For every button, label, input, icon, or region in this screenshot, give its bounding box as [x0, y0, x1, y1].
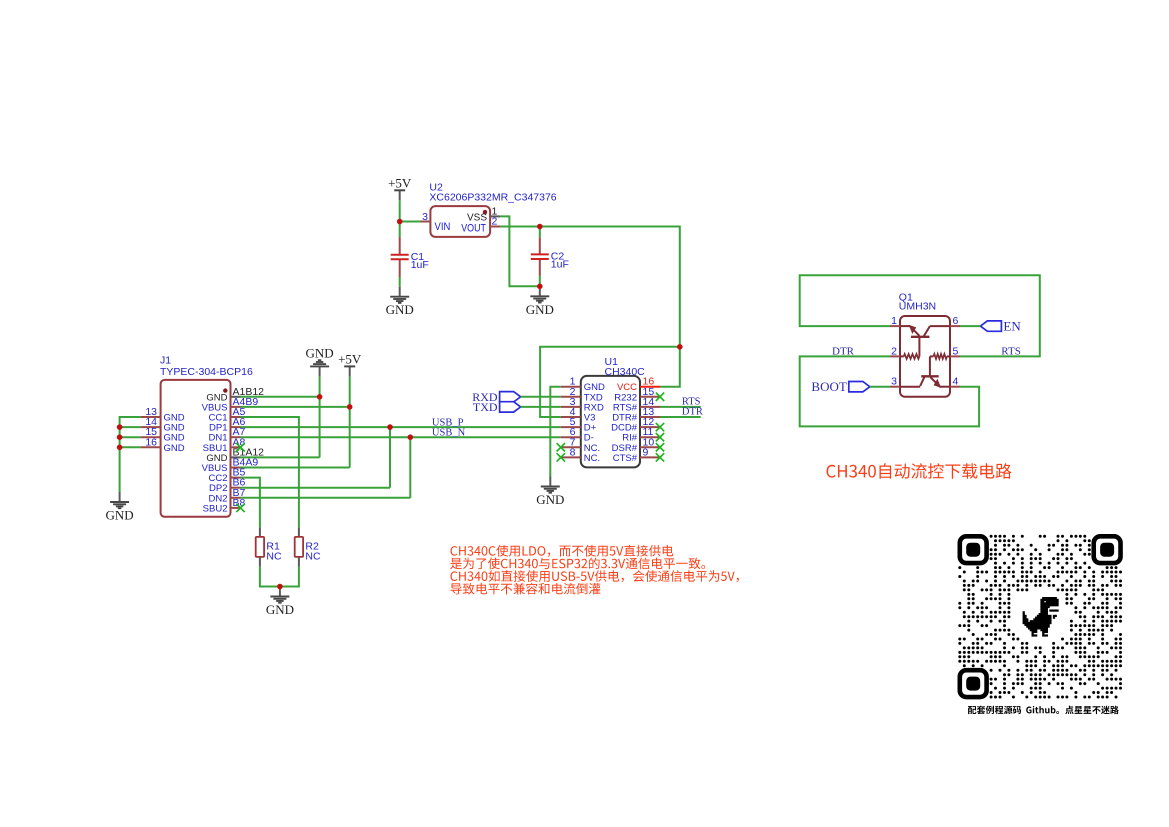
no-connect X U1 pin 15 — [656, 393, 664, 401]
svg-text:9: 9 — [643, 446, 649, 458]
U1 pin 2 TXD — [561, 396, 581, 398]
U1 pin 7 NC. — [561, 446, 581, 448]
J1 pin A4B9 VBUS — [231, 406, 241, 408]
junction A1B12 — [317, 394, 323, 400]
no-connect X U1 pin 11 — [656, 433, 664, 441]
svg-text:TXD: TXD — [473, 400, 498, 414]
U1 pin 16 VCC — [640, 386, 660, 388]
svg-text:GND: GND — [266, 602, 294, 617]
svg-text:1uF: 1uF — [551, 259, 569, 271]
wire USB_P DP1 to U1 D+ — [241, 426, 561, 428]
power flag +5V (regulator input) — [399, 190, 401, 200]
U1 pin 11 RI# — [640, 436, 660, 438]
J1 pin B8 SBU2 — [231, 507, 241, 509]
svg-text:CTS#: CTS# — [613, 453, 638, 464]
no-connect X U1 pin 10 — [656, 443, 664, 451]
svg-text:CH340C: CH340C — [605, 366, 646, 378]
junction VOUT/C2 — [537, 224, 543, 230]
J1 pin A7 DN1 — [231, 436, 241, 438]
svg-text:NC: NC — [266, 551, 282, 563]
port flag RXD — [500, 392, 521, 402]
junction 3V3 — [677, 344, 683, 350]
note text about LDO — [451, 545, 674, 557]
wire RXD flag to TXD pin — [521, 396, 561, 398]
no-connect X on J1 A8 — [236, 443, 244, 451]
capacitor C1 1uF — [399, 222, 401, 238]
wire USB_N DN1 to U1 D- — [241, 436, 561, 438]
svg-text:GND: GND — [526, 302, 554, 317]
junction J1 pin15 — [117, 434, 123, 440]
svg-text:4: 4 — [953, 376, 959, 388]
svg-text:DTR: DTR — [832, 345, 855, 357]
ground GND below C1 — [399, 287, 401, 297]
U1 pin 3 RXD — [561, 406, 581, 408]
capacitor C2 1uF — [539, 227, 541, 238]
no-connect X U1 pin 12 — [656, 423, 664, 431]
svg-text:GND: GND — [306, 345, 334, 360]
svg-text:VIN: VIN — [435, 221, 451, 233]
U1 pin 13 DTR# — [640, 416, 660, 418]
svg-text:GND: GND — [106, 508, 134, 523]
junction J1 pin16 — [117, 445, 123, 451]
connector J1 TYPEC-304-BCP16 — [161, 380, 231, 517]
QR code — [958, 535, 1122, 699]
wire 3V3 to V3 and VCC — [660, 347, 680, 387]
voltage regulator U2 XC6206P332MR — [430, 206, 490, 237]
no-connect X on J1 B8 — [236, 504, 244, 512]
svg-text:GND: GND — [386, 302, 414, 317]
J1 pin 14 GND — [141, 426, 161, 428]
svg-text:NC.: NC. — [584, 453, 600, 464]
J1 pin B7 DN2 — [231, 497, 241, 499]
wire Q1 pin6 to EN — [960, 325, 980, 327]
J1 pin B6 DP2 — [231, 487, 241, 489]
port flag EN — [980, 321, 1001, 331]
svg-text:UMH3N: UMH3N — [899, 301, 936, 313]
svg-text:16: 16 — [145, 436, 157, 448]
wire +5V to VIN — [399, 200, 401, 221]
power flag +5V above J1 — [349, 366, 351, 376]
ground GND below C2 — [539, 286, 541, 296]
J1 pin B1A12 GND — [231, 456, 241, 458]
wire A1B12 GND net — [241, 396, 320, 398]
U1 pin 9 CTS# — [640, 456, 660, 458]
svg-text:SBU2: SBU2 — [203, 503, 228, 514]
junction USB_P — [387, 424, 393, 430]
junction node +5V/C1 — [397, 219, 403, 225]
wire TXD flag to RXD pin — [521, 406, 561, 408]
svg-text:8: 8 — [570, 446, 576, 458]
wire CC2 to R1 — [241, 478, 260, 528]
U1 pin 6 D- — [561, 436, 581, 438]
Q1 pin 4 — [950, 386, 960, 388]
transistor array Q1 UMH3N body — [900, 316, 950, 397]
svg-text:+5V: +5V — [388, 175, 412, 190]
U1 pin 12 DCD# — [640, 426, 660, 428]
no-connect X U1 pin7 — [557, 443, 565, 451]
no-connect X U1 pin 9 — [656, 453, 664, 461]
J1 pin A8 SBU1 — [231, 446, 241, 448]
svg-text:BOOT: BOOT — [811, 379, 846, 394]
junction VBUS — [347, 404, 353, 410]
wire J1 shield pins to GND — [120, 417, 141, 492]
wire Q1 pin2 DTR loop — [800, 356, 979, 426]
ground GND below R1R2 — [279, 587, 281, 597]
port flag TXD — [500, 402, 521, 412]
wire DTR# out — [660, 416, 701, 418]
svg-text:XC6206P332MR_C347376: XC6206P332MR_C347376 — [429, 192, 556, 204]
J1 pin 15 GND — [141, 436, 161, 438]
svg-text:J1: J1 — [160, 355, 171, 367]
U1 pin 1 GND — [561, 386, 581, 388]
wire Q1 pin1 to RTS loop — [800, 275, 1040, 356]
IC U1 CH340C body — [581, 376, 640, 468]
svg-text:EN: EN — [1003, 318, 1021, 333]
J1 pin A5 CC1 — [231, 416, 241, 418]
Q1 internal transistors — [900, 325, 910, 327]
Q1 pin 6 — [950, 325, 960, 327]
Q1 pin 2 — [890, 355, 900, 357]
wire BOOT to Q1 pin3 — [870, 386, 890, 388]
U1 pin 14 RTS# — [640, 406, 660, 408]
wire VSS to GND — [500, 216, 540, 286]
wire VOUT 3V3 net — [500, 227, 680, 347]
wire CC1 to R2 — [241, 417, 299, 527]
svg-text:TYPEC-304-BCP16: TYPEC-304-BCP16 — [160, 366, 253, 378]
J1 pin 16 GND — [141, 446, 161, 448]
svg-text:USB_N: USB_N — [432, 428, 466, 439]
wire R1/R2 to GND — [260, 567, 299, 587]
junction J1 pin14 — [117, 424, 123, 430]
resistor R2 NC — [298, 527, 300, 537]
Q1 pin 5 — [950, 355, 960, 357]
J1 pin A6 DP1 — [231, 426, 241, 428]
svg-text:GND: GND — [164, 443, 185, 454]
Q1 pin 1 — [890, 325, 900, 327]
U2 pin 3 VIN — [421, 221, 431, 223]
svg-text:5: 5 — [953, 345, 959, 357]
Q1 pin 3 — [890, 386, 900, 388]
J1 pin A1B12 GND — [231, 396, 241, 398]
U1 pin 10 DSR# — [640, 446, 660, 448]
junction C2/VSS/GND — [537, 284, 543, 290]
svg-text:+5V: +5V — [338, 351, 362, 366]
U2 pin 1 VSS — [490, 215, 500, 217]
wire RTS# out — [660, 406, 701, 408]
U1 pin 8 NC. — [561, 456, 581, 458]
junction USB_N — [408, 434, 414, 440]
svg-text:6: 6 — [953, 315, 959, 327]
svg-text:GND: GND — [536, 492, 564, 507]
ground GND above J1 — [319, 367, 321, 377]
wire U1 GND to ground — [550, 387, 561, 477]
title CH340 auto flow control — [827, 463, 1012, 479]
svg-text:VOUT: VOUT — [461, 223, 486, 235]
svg-text:2: 2 — [492, 216, 498, 228]
svg-text:2: 2 — [891, 345, 897, 357]
svg-text:3: 3 — [891, 376, 897, 388]
svg-text:DTR: DTR — [682, 407, 703, 418]
chrome dino in QR center — [1023, 597, 1059, 637]
svg-text:RTS: RTS — [1001, 345, 1021, 357]
J1 pin B5 CC2 — [231, 477, 241, 479]
ground GND left of J1 — [119, 492, 121, 502]
U1 pin 4 V3 — [561, 416, 581, 418]
no-connect X U1 pin8 — [557, 453, 565, 461]
U2 pin 2 VOUT — [490, 226, 500, 228]
U1 pin 5 D+ — [561, 426, 581, 428]
svg-text:1uF: 1uF — [411, 259, 429, 271]
QR caption github text — [968, 706, 1119, 715]
J1 pin B4A9 VBUS — [231, 467, 241, 469]
port flag BOOT — [849, 382, 870, 392]
J1 pin 13 GND — [141, 416, 161, 418]
svg-text:3: 3 — [422, 211, 428, 223]
wire VBUS +5V net — [241, 406, 350, 408]
ground GND below U1 — [549, 477, 551, 487]
svg-text:1: 1 — [891, 315, 897, 327]
junction R1R2 GND — [277, 584, 283, 590]
U1 pin 15 R232 — [640, 396, 660, 398]
svg-text:NC: NC — [305, 551, 321, 563]
resistor R1 NC — [259, 527, 261, 537]
